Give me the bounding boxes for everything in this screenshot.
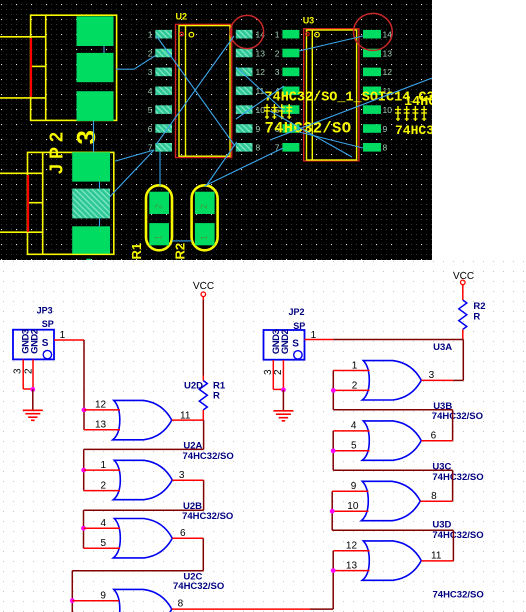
svg-text:S: S (292, 338, 299, 349)
svg-text:11: 11 (431, 551, 442, 562)
svg-text:10: 10 (347, 501, 359, 512)
svg-text:R1: R1 (129, 243, 144, 260)
svg-text:R: R (213, 390, 220, 401)
svg-text:2: 2 (24, 368, 35, 374)
svg-text:GND2: GND2 (280, 329, 291, 354)
svg-text:8: 8 (383, 143, 388, 153)
svg-text:3: 3 (13, 368, 24, 374)
svg-text:8: 8 (178, 599, 184, 610)
svg-text:JP2: JP2 (47, 127, 67, 174)
svg-text:74HC32/SO: 74HC32/SO (432, 530, 483, 541)
svg-text:9: 9 (256, 124, 261, 134)
svg-text:10: 10 (256, 105, 266, 115)
svg-text:4: 4 (351, 420, 357, 431)
svg-text:13: 13 (95, 420, 107, 431)
svg-text:9: 9 (100, 590, 106, 601)
svg-text:S: S (42, 338, 49, 349)
svg-text:R2: R2 (473, 301, 485, 312)
svg-text:5: 5 (101, 538, 107, 549)
svg-text:2: 2 (199, 204, 209, 209)
svg-text:13: 13 (346, 560, 358, 571)
svg-text:2: 2 (101, 480, 107, 491)
svg-text:13: 13 (383, 48, 393, 58)
svg-text:SP: SP (42, 319, 54, 329)
svg-text:GND2: GND2 (30, 329, 41, 354)
svg-text:12: 12 (346, 541, 358, 552)
svg-text:6: 6 (431, 431, 437, 442)
svg-text:8: 8 (431, 491, 437, 502)
svg-text:U2: U2 (176, 12, 188, 22)
svg-text:5: 5 (351, 440, 357, 451)
svg-text:1: 1 (148, 30, 153, 40)
svg-text:9: 9 (383, 124, 388, 134)
svg-text:1: 1 (154, 235, 164, 240)
svg-text:R2: R2 (173, 243, 188, 260)
svg-text:74HC32/SO: 74HC32/SO (432, 472, 483, 483)
svg-text:11: 11 (180, 410, 191, 421)
svg-text:U2D: U2D (184, 380, 203, 391)
svg-text:2: 2 (154, 204, 164, 209)
svg-text:R: R (473, 312, 480, 323)
svg-text:74HC32/SO: 74HC32/SO (432, 411, 483, 422)
svg-text:74HC32/SO: 74HC32/SO (183, 451, 234, 462)
svg-text:4: 4 (148, 86, 153, 96)
svg-text:2: 2 (352, 380, 358, 391)
svg-text:6: 6 (180, 528, 186, 539)
svg-text:4: 4 (101, 518, 107, 529)
svg-text:U3A: U3A (433, 342, 452, 353)
svg-text:U3D: U3D (432, 520, 451, 531)
svg-text:8: 8 (256, 143, 261, 153)
svg-text:74HC32/SO: 74HC32/SO (182, 511, 233, 522)
svg-text:9: 9 (351, 481, 357, 492)
svg-text:74HC32/SO: 74HC32/SO (173, 581, 224, 592)
svg-text:1: 1 (199, 235, 209, 240)
svg-text:VCC: VCC (193, 281, 214, 292)
svg-text:11: 11 (256, 86, 265, 96)
svg-text:3: 3 (275, 67, 280, 77)
svg-text:2: 2 (275, 48, 280, 58)
svg-text:3: 3 (148, 67, 153, 77)
svg-text:12: 12 (256, 67, 266, 77)
svg-text:13: 13 (256, 48, 266, 58)
svg-text:74HC32/SO: 74HC32/SO (433, 589, 484, 600)
svg-text:JP3: JP3 (37, 305, 53, 315)
svg-text:1: 1 (101, 460, 107, 471)
svg-text:6: 6 (148, 124, 153, 134)
svg-text:1: 1 (275, 30, 280, 40)
svg-text:JP2: JP2 (289, 307, 305, 317)
svg-text:1: 1 (352, 360, 358, 371)
svg-text:2: 2 (148, 48, 153, 58)
svg-text:10: 10 (383, 105, 393, 115)
svg-text:5: 5 (148, 105, 153, 115)
svg-text:3: 3 (71, 130, 101, 144)
svg-text:2: 2 (273, 369, 284, 375)
svg-text:74HC3: 74HC3 (395, 123, 434, 138)
svg-text:3: 3 (179, 470, 185, 481)
svg-text:U3: U3 (303, 16, 315, 26)
svg-text:3: 3 (429, 370, 435, 381)
svg-text:12: 12 (383, 67, 393, 77)
svg-text:12: 12 (95, 399, 107, 410)
